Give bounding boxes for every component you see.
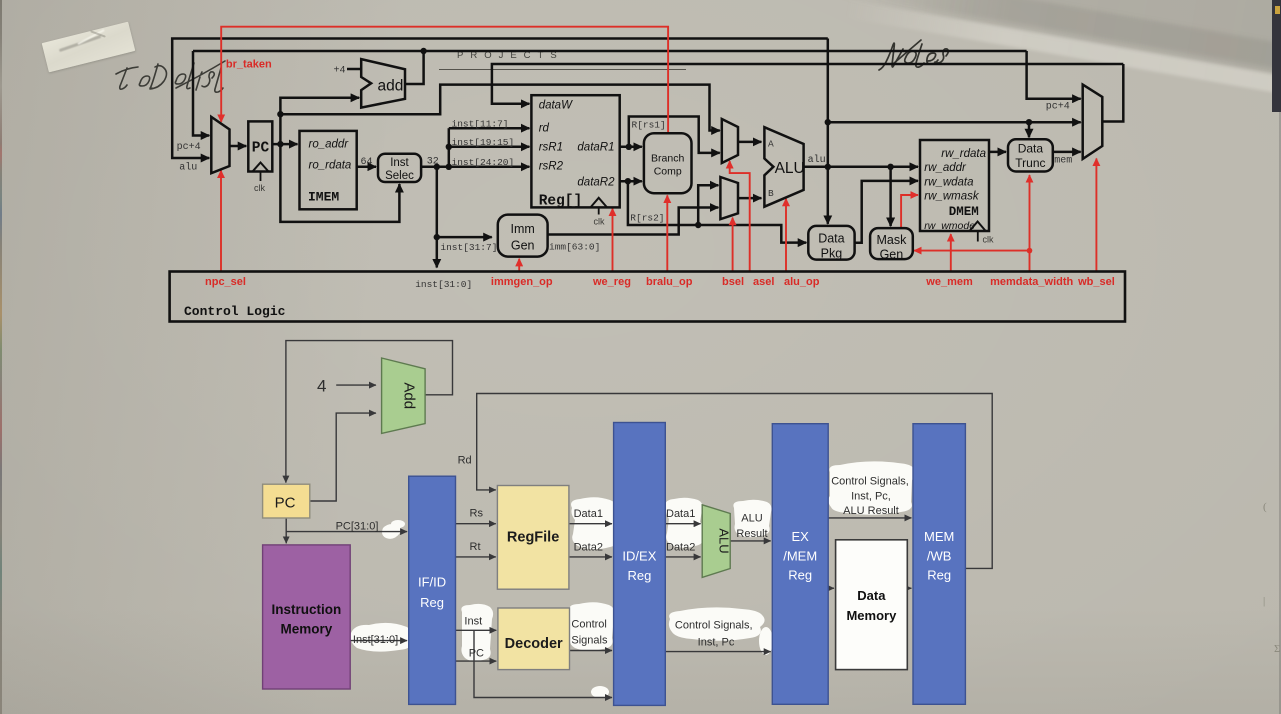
- svg-text:Data: Data: [818, 232, 844, 246]
- svg-text:Instruction: Instruction: [272, 602, 342, 617]
- clk tick DMEM: [977, 231, 979, 242]
- svg-text:bralu_op: bralu_op: [646, 276, 693, 288]
- svg-text:Inst: Inst: [390, 157, 409, 169]
- wire alu down into Mask Gen top: [889, 167, 892, 226]
- wire DMEM rw_rdata to Data Trunc: [989, 151, 1006, 154]
- svg-text:we_reg: we_reg: [592, 276, 631, 288]
- svg-text:ro_rdata: ro_rdata: [309, 160, 352, 172]
- clk wedge Reg: [591, 198, 608, 208]
- node inst bus rsR2: [446, 164, 452, 170]
- wire Decoder control signals to ID/EX: [570, 650, 613, 652]
- wire pc to add input2: [280, 98, 359, 144]
- svg-text:64: 64: [361, 157, 373, 168]
- svg-text:Control Signals,: Control Signals,: [831, 476, 909, 488]
- svg-text:Signals: Signals: [571, 635, 608, 647]
- svg-text:Rs: Rs: [470, 508, 484, 520]
- svg-text:rw_wmask: rw_wmask: [924, 190, 980, 202]
- block Inst Selec: [378, 154, 421, 182]
- svg-text:immgen_op: immgen_op: [491, 276, 553, 288]
- wire A-mux output to ALU A: [738, 141, 761, 144]
- node pc line: [277, 111, 283, 117]
- wire inst[31:0] down to control logic: [436, 167, 439, 268]
- tape piece top-left: [42, 22, 136, 73]
- thin pinstripe under PROJECTS: [439, 69, 686, 70]
- light streak inner darker band: [862, 0, 1281, 99]
- whiteout blob near PC[31:0]: [382, 524, 401, 539]
- wire +4 into add: [347, 68, 361, 71]
- node alu vertical lower: [825, 164, 831, 170]
- block Decoder: [498, 608, 570, 670]
- svg-text:pc+4: pc+4: [1046, 102, 1070, 113]
- svg-text:Add: Add: [401, 382, 418, 409]
- svg-text:add: add: [378, 78, 404, 95]
- block Control Logic: [170, 272, 1125, 322]
- svg-text:IF/ID: IF/ID: [418, 575, 446, 590]
- mux M3 (B mux): [720, 177, 738, 219]
- svg-text:br_taken: br_taken: [226, 59, 272, 71]
- svg-text:clk: clk: [594, 217, 605, 227]
- wire red bralu_op: [666, 195, 668, 271]
- svg-text:dataR1: dataR1: [577, 142, 614, 154]
- wire EX/MEM to MEM/WB top: [828, 517, 911, 519]
- wire PC to Add input2: [310, 413, 376, 501]
- memory DMEM: [920, 140, 989, 231]
- svg-text:rw_addr: rw_addr: [924, 162, 967, 174]
- svg-text:mem: mem: [1054, 156, 1072, 167]
- wire Data Pkg out to DMEM rw_wdata: [855, 181, 918, 243]
- svg-text:dataR2: dataR2: [577, 177, 615, 189]
- whiteout blob Control Signals ALU Result top: [828, 461, 916, 514]
- wire red memdata_width: [1029, 175, 1031, 271]
- wire PC out to IMEM: [272, 143, 297, 146]
- svg-text:MEM: MEM: [924, 529, 954, 544]
- wire add output to pc+4 line: [405, 51, 424, 84]
- wire inst[11:7] to rd: [449, 127, 530, 130]
- wire PC bypass to ID/EX: [474, 630, 612, 697]
- svg-text:Reg: Reg: [420, 595, 444, 610]
- wire ALU result to EX/MEM: [730, 540, 771, 542]
- wire red alu_op: [785, 199, 787, 272]
- wire 4 into Add: [336, 384, 376, 386]
- mux M2 (A mux): [722, 119, 738, 163]
- svg-text:R[rs2]: R[rs2]: [630, 213, 664, 224]
- wire control bus to EX/MEM: [665, 651, 770, 653]
- svg-text:dataW: dataW: [539, 100, 573, 112]
- svg-text:Memory: Memory: [281, 622, 333, 637]
- svg-text:/MEM: /MEM: [783, 548, 817, 563]
- whiteout blob Data1 Data2 left: [571, 497, 619, 549]
- mux M1 (npc mux): [211, 117, 229, 173]
- wire red we_reg: [612, 209, 614, 272]
- whiteout blob small under decoder: [591, 686, 609, 698]
- svg-text:Inst, Pc: Inst, Pc: [698, 637, 735, 649]
- register PC: [248, 121, 272, 171]
- wire red memdata_width branch to Mask Gen: [914, 250, 1029, 252]
- svg-text:asel: asel: [753, 276, 774, 288]
- svg-text:Control Logic: Control Logic: [184, 304, 286, 319]
- svg-text:rd: rd: [539, 123, 550, 135]
- wire inst[19:15] to rsR1: [449, 146, 530, 149]
- node add output on pc+4 line: [420, 48, 426, 54]
- left edge colour strip: [0, 0, 2, 714]
- svg-text:imm[63:0]: imm[63:0]: [549, 242, 600, 253]
- svg-text:B: B: [768, 188, 774, 199]
- register IF/ID Reg: [409, 476, 456, 704]
- node inst[31:7] branch: [434, 234, 440, 240]
- memory IMEM: [300, 131, 357, 209]
- block Branch Comp: [644, 133, 692, 193]
- wire red br_taken from Branch Comp to left mux select: [221, 27, 668, 134]
- svg-text:|: |: [1263, 595, 1265, 607]
- wire Data2 right: [665, 556, 700, 558]
- wire inst vertical bus: [448, 128, 451, 167]
- svg-text:inst[24:20]: inst[24:20]: [452, 157, 515, 168]
- svg-text:PC: PC: [275, 495, 296, 512]
- wire add loop to PC: [286, 341, 453, 483]
- whiteout blob Inst[31:0]: [350, 623, 412, 652]
- wire R[rs1] to A-mux input2: [629, 117, 720, 153]
- svg-text:Decoder: Decoder: [505, 636, 563, 652]
- register file Reg[]: [531, 95, 619, 207]
- svg-text:rw_rdata: rw_rdata: [941, 148, 986, 160]
- light streak shadow region top-right: [837, 0, 1281, 105]
- node alu maskgen branch: [887, 164, 893, 170]
- wire writeback line y64: [492, 64, 1123, 104]
- mux M4 (wb mux): [1083, 85, 1103, 159]
- svg-text:ID/EX: ID/EX: [622, 549, 656, 564]
- svg-text:EX: EX: [792, 529, 810, 544]
- svg-text:Data1: Data1: [666, 508, 695, 520]
- wire Data Trunc out to right mux input3: [1053, 151, 1081, 154]
- wire pc down to Inst Selec: [280, 144, 399, 222]
- wire down into Data Trunc top: [1028, 122, 1031, 137]
- svg-text:/WB: /WB: [927, 548, 952, 563]
- wire EX/MEM to Data Memory: [828, 587, 834, 589]
- wire Data1 right: [665, 523, 700, 525]
- wire red we_mem: [950, 234, 952, 271]
- wire red asel: [730, 161, 750, 272]
- node data trunc drop: [1026, 119, 1032, 125]
- register file RegFile: [497, 486, 569, 590]
- svg-text:Pkg: Pkg: [821, 247, 843, 261]
- svg-text:Inst: Inst: [464, 616, 482, 628]
- wire pc line to A-mux input1: [280, 85, 719, 131]
- svg-text:inst[11:7]: inst[11:7]: [452, 118, 509, 129]
- svg-text:Inst, Pc,: Inst, Pc,: [851, 491, 891, 503]
- node pc out: [277, 141, 283, 147]
- wire inst[31:7] to Imm Gen: [437, 236, 492, 239]
- light streak highlight top-right: [845, 0, 1281, 124]
- wire alu result vertical to Data Pkg: [827, 39, 830, 224]
- whiteout blob ALU Result: [733, 500, 771, 538]
- wire pc+4 into left mux: [193, 51, 209, 136]
- clk wedge DMEM: [970, 222, 986, 232]
- svg-text:(: (: [1263, 501, 1267, 513]
- svg-text:Data1: Data1: [574, 508, 603, 520]
- svg-text:alu_op: alu_op: [784, 276, 820, 288]
- whiteout blob Control Signals decoder: [569, 602, 614, 651]
- svg-text:rsR2: rsR2: [539, 161, 564, 173]
- svg-text:wb_sel: wb_sel: [1077, 276, 1115, 288]
- wire ALU output to DMEM rw_addr: [804, 166, 918, 169]
- svg-text:ALU: ALU: [775, 160, 805, 177]
- adder Add (pipeline): [382, 358, 426, 433]
- handwriting: Notes: [0, 0, 1281, 120]
- svg-text:alu: alu: [808, 154, 826, 166]
- wire R[rs2] to B-mux input1: [698, 185, 718, 225]
- svg-text:inst[31:7]: inst[31:7]: [440, 242, 497, 253]
- register EX/MEM Reg: [772, 424, 828, 705]
- clk wedge PC: [253, 163, 269, 172]
- wire inst 32 line to Reg rsR2: [421, 166, 529, 169]
- node dataR1: [626, 144, 632, 150]
- svg-text:Data2: Data2: [666, 542, 695, 554]
- whiteout blob left of EX/MEM: [759, 627, 773, 655]
- svg-text:PC: PC: [252, 141, 270, 157]
- svg-text:rw_wmode: rw_wmode: [924, 220, 975, 232]
- svg-text:PC[31:0]: PC[31:0]: [336, 521, 379, 533]
- wire PC down to Instruction Memory: [285, 518, 287, 543]
- svg-text:bsel: bsel: [722, 276, 744, 288]
- wire red Mask Gen out to rw_wmask: [901, 195, 918, 228]
- svg-text:Data: Data: [1018, 142, 1044, 156]
- svg-text:Mask: Mask: [876, 233, 907, 247]
- svg-text:Inst[31:0]: Inst[31:0]: [353, 634, 398, 646]
- svg-text:Reg[]: Reg[]: [539, 194, 583, 210]
- register ID/EX Reg: [614, 423, 666, 706]
- svg-text:Trunc: Trunc: [1015, 156, 1045, 170]
- wire left mux output to PC: [230, 145, 247, 148]
- svg-text:Rd: Rd: [458, 455, 472, 467]
- wire red bsel: [732, 218, 734, 272]
- wire red wb_sel: [1095, 159, 1097, 272]
- svg-text:alu: alu: [179, 162, 197, 174]
- wire Rs: [456, 523, 496, 525]
- node alu vertical upper: [825, 119, 831, 125]
- svg-text:Σ: Σ: [1274, 643, 1280, 655]
- svg-text:npc_sel: npc_sel: [205, 276, 246, 288]
- whiteout blob Inst PC column: [461, 604, 493, 661]
- svg-text:inst[31:0]: inst[31:0]: [415, 279, 472, 290]
- svg-text:Comp: Comp: [654, 166, 682, 178]
- svg-text:Gen: Gen: [880, 248, 904, 262]
- svg-text:we_mem: we_mem: [925, 276, 973, 288]
- svg-text:Selec: Selec: [385, 170, 414, 182]
- svg-text:ALU: ALU: [741, 513, 762, 525]
- wire alu to Data Trunc line: [828, 121, 1081, 124]
- svg-text:inst[19:15]: inst[19:15]: [452, 137, 515, 148]
- block Imm Gen: [498, 215, 548, 257]
- svg-text:DMEM: DMEM: [949, 205, 979, 219]
- svg-text:+4: +4: [334, 66, 346, 77]
- svg-text:PC: PC: [469, 648, 484, 660]
- wire IMEM ro_rdata to Inst Selec: [357, 165, 376, 168]
- svg-text:ALU Result: ALU Result: [843, 505, 899, 517]
- svg-text:32: 32: [427, 157, 439, 168]
- wire PC to Decoder: [456, 660, 497, 662]
- whiteout blob Data1 Data2 right: [665, 498, 703, 548]
- clk tick PC: [260, 172, 262, 182]
- node red memdata junction: [1027, 248, 1033, 254]
- wire Data Memory to MEM/WB: [907, 587, 911, 589]
- whiteout blob Control Signals Inst Pc: [669, 607, 765, 640]
- wire right mux output: [1102, 64, 1123, 122]
- wire Rd writeback loop: [477, 394, 993, 569]
- svg-text:rsR1: rsR1: [539, 142, 563, 154]
- wire Data1 left: [569, 523, 612, 525]
- svg-text:Reg: Reg: [627, 568, 651, 583]
- wire imm[63:0] to B-mux input2: [548, 208, 719, 235]
- svg-text:ALU: ALU: [717, 528, 732, 553]
- memory Instruction Memory: [263, 545, 351, 689]
- alu ALU (pipeline): [702, 505, 730, 578]
- wire dataR2 to Branch Comp: [620, 180, 642, 183]
- wire B-mux output to ALU B: [738, 197, 761, 200]
- register PC (pipeline): [263, 484, 310, 518]
- svg-text:IMEM: IMEM: [308, 190, 339, 205]
- wire Inst[31:0] to IF/ID: [350, 640, 407, 642]
- wire red immgen_op: [518, 259, 520, 272]
- svg-text:Result: Result: [736, 528, 767, 540]
- memory Data Memory: [836, 540, 908, 670]
- node inst bus rsR1: [446, 144, 452, 150]
- adder add (+4): [361, 59, 405, 108]
- node inst31 drop: [434, 164, 440, 170]
- svg-text:rw_wdata: rw_wdata: [924, 176, 973, 188]
- wire Inst to Decoder: [456, 629, 497, 631]
- alu ALU: [764, 127, 803, 207]
- svg-text:clk: clk: [254, 183, 265, 193]
- block Data Pkg: [808, 226, 854, 260]
- svg-text:pc+4: pc+4: [177, 142, 201, 153]
- wire pc+4 top line: [193, 50, 1027, 53]
- svg-text:4: 4: [317, 377, 326, 396]
- wire Rt: [456, 556, 496, 558]
- svg-text:Gen: Gen: [511, 239, 535, 253]
- wire red npc_sel: [220, 171, 222, 272]
- handwriting: To Do list: [0, 0, 300, 120]
- svg-text:Imm: Imm: [511, 222, 535, 236]
- svg-text:R[rs1]: R[rs1]: [632, 120, 666, 131]
- right edge dark strip: [1272, 0, 1281, 112]
- svg-text:Control Signals,: Control Signals,: [675, 620, 753, 632]
- wire alu feedback top line to left mux: [172, 39, 828, 159]
- wire Data2 left: [569, 556, 612, 558]
- svg-text:Reg: Reg: [927, 568, 951, 583]
- svg-text:Rt: Rt: [470, 541, 481, 553]
- svg-text:Data2: Data2: [574, 542, 603, 554]
- clk tick Reg: [598, 207, 600, 214]
- wire dataR1 to Branch Comp: [620, 146, 642, 149]
- block Data Trunc: [1008, 139, 1053, 171]
- svg-text:Memory: Memory: [846, 608, 897, 623]
- svg-text:Control: Control: [571, 619, 606, 631]
- svg-text:RegFile: RegFile: [507, 530, 559, 546]
- svg-text:clk: clk: [983, 235, 994, 245]
- svg-text:ro_addr: ro_addr: [309, 139, 350, 151]
- block Mask Gen: [870, 228, 913, 259]
- svg-text:Branch: Branch: [651, 153, 684, 165]
- wire R[rs2] to Data Pkg: [628, 181, 806, 242]
- node dataR2: [625, 178, 631, 184]
- register MEM/WB Reg: [913, 424, 965, 705]
- svg-text:Reg: Reg: [788, 568, 812, 583]
- node R[rs2] to bmux: [695, 222, 701, 228]
- svg-text:Data: Data: [857, 588, 886, 603]
- svg-text:memdata_width: memdata_width: [990, 276, 1073, 288]
- wire pc+4 into right mux: [1027, 51, 1081, 99]
- wire PC[31:0] to IF/ID: [286, 531, 407, 533]
- svg-text:A: A: [768, 139, 774, 150]
- PROJECTS header: [457, 50, 564, 61]
